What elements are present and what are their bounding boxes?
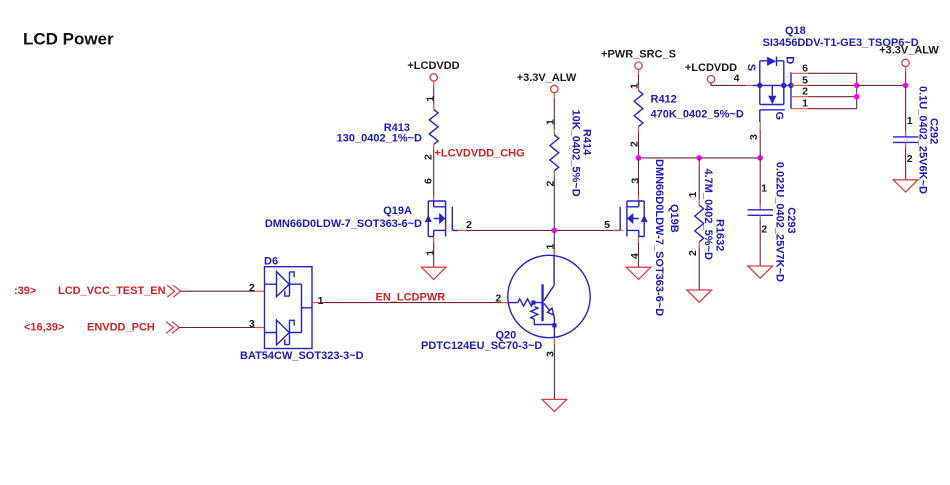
transistor Q20 — [421, 255, 590, 351]
junction ladder pin2 — [854, 94, 860, 100]
svg-text:2: 2 — [907, 153, 913, 165]
junction bus left — [636, 155, 642, 161]
power symbol +3.3V_ALW (right) — [879, 45, 939, 73]
pin 2 of C293 — [760, 215, 767, 235]
wires Q18 pins to right bus — [808, 73, 857, 108]
svg-text:1: 1 — [629, 83, 641, 89]
resistor R412 — [634, 91, 744, 127]
ground below C292 — [893, 180, 918, 192]
svg-text:1: 1 — [424, 96, 436, 102]
wire Q18 gate to bus — [759, 130, 761, 158]
svg-text:Q19A: Q19A — [383, 205, 412, 217]
svg-text:1: 1 — [761, 183, 767, 195]
svg-text:1: 1 — [687, 192, 699, 198]
wire gate net Q19A to Q19B — [467, 229, 614, 231]
pin 1 of R414 — [545, 119, 557, 135]
off-page connector ENVDD_PCH — [24, 322, 179, 334]
pin 5 of Q19B (gate) — [604, 219, 623, 231]
pin 1 of Q18 — [791, 98, 808, 110]
svg-text:4: 4 — [734, 73, 740, 85]
ground below C293 — [748, 266, 773, 278]
pin 5 of Q18 — [791, 74, 808, 86]
svg-text:EN_LCDPWR: EN_LCDPWR — [376, 292, 446, 304]
pin 3 of Q20 — [545, 338, 557, 357]
pin 1 of R413 — [424, 96, 436, 110]
wire R412 to bus — [638, 132, 640, 158]
pin 2 of R413 — [422, 144, 434, 160]
junction ladder pin5 — [854, 83, 860, 89]
svg-text:1: 1 — [802, 98, 808, 110]
resistor R1632 — [695, 169, 726, 260]
pin 1 of R412 — [629, 83, 641, 91]
svg-text:6: 6 — [422, 178, 434, 184]
wire ENVDD_PCH to D6 pin 3 — [179, 327, 255, 329]
wire R1632 to ground — [698, 248, 700, 291]
power symbol +LCDVDD (left) — [407, 60, 459, 87]
svg-text:LCD_VCC_TEST_EN: LCD_VCC_TEST_EN — [58, 285, 166, 297]
svg-text:2: 2 — [466, 219, 472, 231]
svg-text::39>: :39> — [14, 285, 36, 297]
ground below Q19A — [421, 267, 446, 279]
pin 3 of D6 — [249, 318, 265, 330]
svg-text:2: 2 — [545, 181, 557, 187]
resistor R414 — [550, 110, 593, 197]
svg-text:+LCVDVDD_CHG: +LCVDVDD_CHG — [435, 147, 525, 159]
svg-text:Q18: Q18 — [785, 25, 806, 37]
svg-text:D6: D6 — [264, 256, 278, 268]
svg-text:DMN66D0LDW-7_SOT363-6~D: DMN66D0LDW-7_SOT363-6~D — [653, 159, 665, 316]
svg-text:+LCDVDD: +LCDVDD — [685, 62, 737, 74]
pin 2 of D6 — [249, 282, 265, 294]
pin 2 of Q18 — [791, 86, 808, 98]
transistor Q18 — [745, 25, 919, 122]
svg-text:+3.3V_ALW: +3.3V_ALW — [517, 72, 577, 84]
wire R414 to junction — [553, 177, 555, 231]
pin 4 of Q19B (source) — [629, 237, 641, 260]
svg-text:4: 4 — [629, 253, 641, 259]
wire +LCDVDD to R413 — [433, 87, 435, 104]
svg-text:2: 2 — [802, 86, 808, 98]
ground below Q20 — [542, 399, 567, 411]
svg-text:1: 1 — [907, 115, 913, 127]
svg-text:R412: R412 — [651, 94, 677, 106]
svg-text:S: S — [745, 64, 757, 71]
svg-text:<16,39>: <16,39> — [24, 322, 64, 334]
svg-text:LCD Power: LCD Power — [23, 30, 114, 49]
wire +3.3V_ALW down — [905, 72, 907, 85]
pin 2 of Q19A (gate) — [458, 219, 472, 231]
svg-text:C292: C292 — [927, 118, 939, 144]
pin 3 of Q19B — [629, 178, 641, 201]
svg-text:+3.3V_ALW: +3.3V_ALW — [879, 45, 939, 57]
power symbol +3.3V_ALW (middle) — [517, 72, 577, 98]
pin 4 of Q18 — [734, 73, 753, 86]
wire C293 to ground — [759, 221, 761, 267]
pin 2 of C292 — [906, 142, 913, 165]
pin 1 of C293 — [760, 183, 767, 210]
svg-text:130_0402_1%~D: 130_0402_1%~D — [337, 133, 422, 145]
svg-text:5: 5 — [604, 219, 610, 231]
junction bus C293 — [757, 155, 763, 161]
svg-text:2: 2 — [761, 224, 767, 236]
wire LCD_VCC_TEST_EN to D6 pin 2 — [181, 290, 256, 292]
svg-text:4.7M_0402_5%~D: 4.7M_0402_5%~D — [702, 169, 714, 260]
wire +PWR_SRC_S to R412 — [638, 75, 640, 85]
svg-text:0.1U_0402_25V6K~D: 0.1U_0402_25V6K~D — [917, 86, 929, 194]
svg-text:2: 2 — [495, 293, 501, 305]
wire ladder to +3.3V_ALW — [857, 84, 906, 86]
wire bus to R1632 — [698, 158, 700, 200]
capacitor C293 — [748, 162, 798, 282]
wire Q20 emitter to ground — [553, 344, 555, 399]
wire C292 to ground — [905, 148, 907, 180]
pin 2 of R414 — [545, 171, 557, 187]
pin 1 of C292 — [906, 115, 913, 136]
resistor R413 — [337, 109, 438, 144]
wire +LCDVDD to Q18 pin 4 — [711, 83, 746, 86]
wire bus to Q19B drain — [638, 158, 640, 195]
transistor Q19A — [265, 201, 458, 237]
svg-text:0.022U_0402_25V7K~D: 0.022U_0402_25V7K~D — [773, 162, 785, 282]
junction bus R1632 — [696, 155, 702, 161]
svg-text:R414: R414 — [580, 129, 592, 156]
wire Q19B source to ground — [638, 243, 640, 267]
wire Q19A source to ground — [433, 243, 435, 267]
svg-text:1: 1 — [545, 119, 557, 125]
pin 1 of Q19A (source) — [424, 237, 436, 256]
svg-text:PDTC124EU_SC70-3~D: PDTC124EU_SC70-3~D — [421, 340, 542, 352]
svg-text:BAT54CW_SOT323-3~D: BAT54CW_SOT323-3~D — [240, 350, 364, 362]
svg-text:2: 2 — [687, 250, 699, 256]
svg-text:3: 3 — [748, 134, 760, 140]
wire junction to C292 — [905, 85, 907, 131]
pin 6 of Q19A — [422, 178, 434, 201]
svg-text:1: 1 — [545, 244, 557, 250]
wire junction to Q20 collector — [553, 230, 555, 255]
diode D6 — [240, 256, 364, 363]
junction gate net — [552, 228, 558, 234]
svg-text:2: 2 — [422, 154, 434, 160]
ground below Q19B — [626, 267, 651, 279]
bus wire — [639, 157, 761, 159]
pin 3 of Q18 (gate) — [748, 122, 760, 140]
capacitor C292 — [893, 86, 940, 194]
wire +3.3V_ALW to R414 — [553, 98, 555, 129]
wire bus to C293 — [759, 158, 761, 205]
svg-text:C293: C293 — [785, 207, 797, 233]
pin 1 of R1632 — [687, 192, 699, 206]
wire EN_LCDPWR — [323, 302, 502, 304]
svg-text:G: G — [773, 112, 785, 121]
wire R413 to Q19A — [433, 150, 435, 195]
svg-text:DMN66D0LDW-7_SOT363-6~D: DMN66D0LDW-7_SOT363-6~D — [265, 218, 422, 230]
pin 1 of D6 — [312, 295, 324, 307]
pin 2 of Q20 — [495, 293, 508, 305]
transistor Q19B — [614, 201, 647, 237]
junction C292 — [903, 83, 909, 89]
svg-text:3: 3 — [249, 318, 255, 330]
pin 6 of Q18 — [791, 62, 808, 74]
pin 2 of R1632 — [687, 242, 699, 256]
svg-text:1: 1 — [318, 295, 324, 307]
svg-text:2: 2 — [249, 282, 255, 294]
ground below R1632 — [687, 290, 712, 302]
svg-text:+PWR_SRC_S: +PWR_SRC_S — [601, 49, 676, 61]
svg-text:R1632: R1632 — [714, 219, 726, 251]
svg-text:+LCDVDD: +LCDVDD — [407, 60, 459, 72]
svg-text:D: D — [783, 56, 795, 64]
pin 1 of Q20 — [545, 244, 557, 256]
svg-text:5: 5 — [802, 74, 808, 86]
pin 2 of R412 — [629, 127, 641, 148]
svg-text:Q19B: Q19B — [668, 204, 680, 233]
svg-text:6: 6 — [802, 62, 808, 74]
off-page connector LCD_VCC_TEST_EN — [14, 285, 181, 297]
svg-text:10K_0402_5%~D: 10K_0402_5%~D — [570, 110, 582, 197]
svg-text:470K_0402_5%~D: 470K_0402_5%~D — [651, 109, 744, 121]
svg-text:3: 3 — [629, 178, 641, 184]
svg-text:ENVDD_PCH: ENVDD_PCH — [87, 322, 155, 334]
power symbol +LCDVDD (right) — [685, 62, 737, 83]
power symbol +PWR_SRC_S — [601, 49, 676, 76]
svg-text:1: 1 — [424, 250, 436, 256]
